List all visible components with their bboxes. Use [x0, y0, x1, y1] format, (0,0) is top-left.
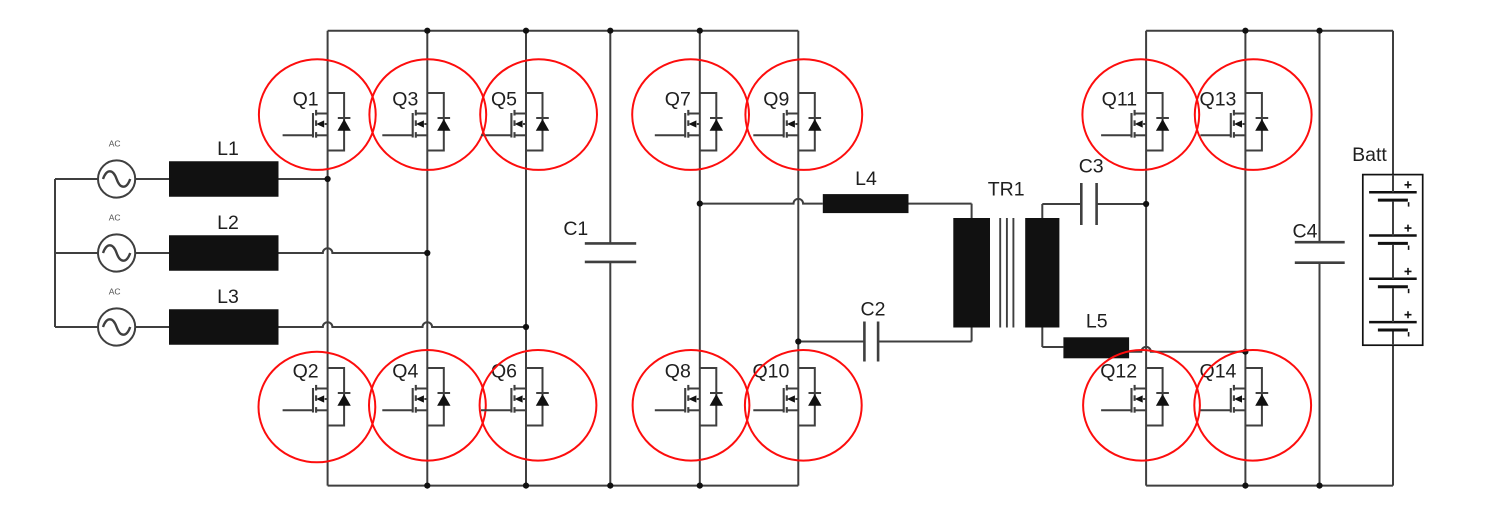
- capacitor C4 plates: [1295, 241, 1345, 244]
- red highlight circle Q4: [369, 350, 486, 461]
- wire leg C1 lower: [609, 262, 611, 486]
- wire left DC-link bottom bus: [328, 485, 799, 487]
- red highlight circle Q5: [480, 59, 597, 170]
- junction Q9/Q10 midpoint: [795, 338, 801, 344]
- wire L2 to node B (hops Q1/Q2 leg): [279, 248, 428, 253]
- red highlight circle Q12: [1083, 350, 1200, 461]
- wire L5 to Q13/Q14 midpoint (hops Q11/Q12 leg): [1129, 347, 1245, 352]
- red highlight circle Q9: [745, 59, 862, 170]
- red highlight circle Q13: [1195, 59, 1312, 170]
- svg-text:C4: C4: [1293, 220, 1318, 242]
- svg-text:L2: L2: [217, 212, 239, 234]
- wire AC2 right lead: [135, 252, 169, 254]
- wire TR1 secondary bottom to L5: [1042, 346, 1063, 348]
- node A phase L1: [325, 176, 331, 182]
- wire left DC-link top bus: [328, 30, 799, 32]
- wire right bridge bottom bus: [1146, 485, 1393, 487]
- inductor L2: [169, 235, 279, 271]
- red highlight circle Q2: [259, 352, 376, 463]
- svg-text:L4: L4: [855, 168, 877, 190]
- svg-text:Q3: Q3: [392, 89, 418, 111]
- red highlight circle Q1: [259, 59, 376, 170]
- red highlight circle Q14: [1194, 350, 1311, 461]
- wire C3 to Q11/Q12 midpoint: [1097, 203, 1147, 205]
- svg-text:Q9: Q9: [763, 89, 789, 111]
- svg-text:Batt: Batt: [1352, 144, 1387, 166]
- transistor Q5 (MOSFET with body diode): [481, 93, 549, 151]
- inductor L3: [169, 309, 279, 345]
- junction top bus / Q7 leg: [697, 28, 703, 34]
- wire TR1 secondary top to C3: [1042, 203, 1081, 205]
- inductor L4: [823, 194, 909, 213]
- wire leg Q7/Q8: [699, 31, 701, 486]
- capacitor C1 plates: [585, 242, 636, 245]
- wire TR1 primary top lead: [971, 204, 973, 218]
- svg-text:Q1: Q1: [293, 89, 319, 111]
- wire AC1 right lead: [135, 178, 169, 180]
- svg-text:Q11: Q11: [1102, 89, 1137, 111]
- wire TR1 primary bottom to C2: [878, 341, 972, 343]
- svg-text:L5: L5: [1086, 311, 1108, 333]
- junction Q13/Q14 midpoint: [1242, 349, 1248, 355]
- wire leg Q13/Q14: [1244, 31, 1246, 486]
- svg-text:AC: AC: [109, 287, 121, 297]
- junction bottom bus / Q6 leg: [523, 483, 529, 489]
- junction top bus / Q5 leg: [523, 28, 529, 34]
- wire leg Q9/Q10: [797, 31, 799, 486]
- junction right top bus / C4 leg: [1316, 28, 1322, 34]
- transistor Q10 (MOSFET with body diode): [753, 368, 821, 426]
- wire leg C1 upper: [609, 31, 611, 244]
- svg-text:Q12: Q12: [1100, 361, 1137, 383]
- AC source V1: [98, 160, 135, 197]
- wire right bridge top bus: [1146, 30, 1393, 32]
- transistor Q11 (MOSFET with body diode): [1101, 93, 1169, 151]
- svg-text:C1: C1: [563, 218, 588, 240]
- transistor Q8 (MOSFET with body diode): [655, 368, 723, 426]
- wire L4 to TR1 primary: [909, 203, 972, 205]
- red highlight circle Q7: [632, 59, 749, 170]
- capacitor C2 plates: [863, 322, 866, 362]
- junction top bus / Q3 leg: [424, 28, 430, 34]
- wire leg Q5/Q6: [525, 31, 527, 486]
- wire leg C4 lower: [1319, 263, 1321, 486]
- transformer TR1 core: [999, 218, 1001, 328]
- inductor L5: [1063, 337, 1129, 358]
- svg-text:C2: C2: [861, 299, 886, 321]
- svg-text:C3: C3: [1079, 156, 1104, 178]
- wire AC3 right lead: [135, 326, 169, 328]
- wire TR1 secondary top lead: [1041, 204, 1043, 218]
- wire neutral vertical: [54, 179, 56, 327]
- svg-text:Q13: Q13: [1200, 89, 1237, 111]
- node B phase L2: [424, 250, 430, 256]
- junction Q7/Q8 midpoint: [697, 201, 703, 207]
- junction top bus / C1 leg: [607, 28, 613, 34]
- junction bottom bus / Q4 leg: [424, 483, 430, 489]
- transformer TR1 secondary winding: [1025, 218, 1059, 328]
- wire leg C4 upper: [1319, 31, 1321, 243]
- svg-text:Q6: Q6: [491, 361, 517, 383]
- red highlight circle Q3: [369, 59, 486, 170]
- battery Batt outline: [1363, 175, 1423, 346]
- svg-text:Q8: Q8: [665, 361, 691, 383]
- junction right bottom bus / C4 leg: [1316, 483, 1322, 489]
- inductor L1: [169, 161, 279, 197]
- wire leg Q1/Q2: [327, 31, 329, 486]
- wire battery leg upper: [1392, 31, 1394, 175]
- transistor Q12 (MOSFET with body diode): [1101, 368, 1169, 426]
- svg-text:Q2: Q2: [293, 361, 319, 383]
- wire C2 to Q9/Q10 midpoint: [798, 341, 864, 343]
- red highlight circle Q10: [745, 350, 862, 461]
- battery cell 4: [1369, 311, 1417, 336]
- transistor Q2 (MOSFET with body diode): [283, 368, 351, 426]
- node C phase L3: [523, 324, 529, 330]
- wire L3 to node C (hops Q1/Q2 and Q3/Q4 legs): [279, 322, 527, 327]
- red highlight circle Q6: [480, 350, 597, 461]
- svg-text:AC: AC: [109, 213, 121, 223]
- battery cell 1: [1369, 181, 1417, 206]
- AC source V2: [98, 234, 135, 271]
- transformer TR1 primary winding: [953, 218, 990, 328]
- junction bottom bus / Q8 leg: [697, 483, 703, 489]
- svg-text:Q7: Q7: [665, 89, 691, 111]
- svg-text:Q5: Q5: [491, 89, 517, 111]
- svg-text:Q4: Q4: [392, 361, 418, 383]
- capacitor C3 plates: [1080, 183, 1083, 225]
- transistor Q6 (MOSFET with body diode): [481, 368, 549, 426]
- transistor Q9 (MOSFET with body diode): [753, 93, 821, 151]
- wire leg Q3/Q4: [426, 31, 428, 486]
- svg-text:TR1: TR1: [988, 179, 1025, 201]
- wire L1 to node A: [279, 178, 328, 180]
- svg-text:L3: L3: [217, 286, 239, 308]
- transistor Q7 (MOSFET with body diode): [655, 93, 723, 151]
- wire Q7/Q8 midpoint to L4 (hops Q9/Q10 leg): [700, 199, 823, 204]
- wire AC1 left lead: [55, 178, 98, 180]
- red highlight circle Q8: [633, 350, 750, 461]
- battery cell 2: [1369, 225, 1417, 250]
- junction right bottom bus / Q14 leg: [1242, 483, 1248, 489]
- AC source V3: [98, 308, 135, 345]
- transistor Q14 (MOSFET with body diode): [1200, 368, 1268, 426]
- junction Q11/Q12 midpoint: [1143, 201, 1149, 207]
- battery cell 3: [1369, 268, 1417, 293]
- wire AC2 left lead: [55, 252, 98, 254]
- transistor Q3 (MOSFET with body diode): [382, 93, 450, 151]
- transistor Q1 (MOSFET with body diode): [283, 93, 351, 151]
- junction right top bus / Q13 leg: [1242, 28, 1248, 34]
- svg-text:L1: L1: [217, 138, 239, 160]
- transistor Q13 (MOSFET with body diode): [1200, 93, 1268, 151]
- red highlight circle Q11: [1082, 59, 1199, 170]
- wire battery internal stem: [1392, 175, 1394, 193]
- svg-text:Q14: Q14: [1200, 361, 1237, 383]
- wire leg Q11/Q12: [1145, 31, 1147, 486]
- svg-text:AC: AC: [109, 139, 121, 149]
- transistor Q4 (MOSFET with body diode): [382, 368, 450, 426]
- wire battery leg lower: [1392, 345, 1394, 485]
- wire TR1 secondary bottom lead: [1041, 328, 1043, 348]
- wire TR1 primary bottom lead: [971, 328, 973, 342]
- wire AC3 left lead: [55, 326, 98, 328]
- junction bottom bus / C1 leg: [607, 483, 613, 489]
